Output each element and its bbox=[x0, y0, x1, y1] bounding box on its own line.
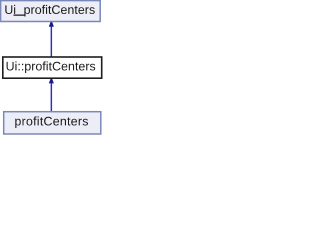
node profitCenters (derived class box) bbox=[4, 112, 101, 134]
inheritance graph for class profitCenters bbox=[0, 0, 103, 136]
node Ui::profitCenters (current class box) bbox=[3, 57, 102, 78]
wire inheritance arrow from profitCenters up to Ui::profitCenters bbox=[49, 79, 54, 112]
wire inheritance arrow from Ui::profitCenters up to Ui_profitCenters bbox=[49, 22, 54, 57]
node Ui_profitCenters (base class box) bbox=[1, 1, 101, 22]
